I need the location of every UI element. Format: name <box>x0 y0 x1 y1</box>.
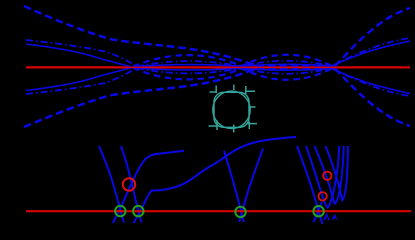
band dashed lens lower <box>133 68 332 80</box>
marker green circle 1 <box>115 206 125 216</box>
fermi surface inset circle <box>213 91 250 128</box>
band dashed outer upper-right <box>335 8 410 66</box>
fermi level line (top panel) <box>26 66 410 68</box>
marker green circle 4 <box>313 206 323 216</box>
band dashed outer lower-right <box>335 69 410 127</box>
band solid upper-right <box>332 41 410 66</box>
fermi surface inset tick marks <box>209 85 258 133</box>
right group parabola P4 <box>326 146 348 200</box>
band solid lower-left <box>26 67 134 91</box>
band solid lower-right <box>332 69 410 94</box>
band dash-dot lower mid lenses <box>137 68 330 74</box>
middle V right branch <box>239 149 263 223</box>
band solid lower mid <box>135 68 332 70</box>
dispersion swoosh C (bottom-left group) <box>113 151 184 223</box>
k-point label glyph 2 below right group <box>333 216 337 220</box>
band dash-dot upper mid lenses <box>137 61 330 67</box>
band dashed outer lower-left <box>24 69 335 127</box>
dispersion line B (bottom-left group) <box>121 146 142 223</box>
middle V left branch <box>224 151 244 222</box>
dispersion swoosh D (bottom-left group) <box>134 137 297 223</box>
band dashed outer upper-left <box>24 6 335 66</box>
right group parabola P2 <box>306 146 339 208</box>
band solid upper mid <box>135 64 332 66</box>
band dashed lens upper <box>133 55 332 67</box>
band dash-dot upper-right <box>333 38 410 66</box>
marker green circle 2 <box>133 206 143 216</box>
band solid upper-left <box>26 44 134 68</box>
fermi level line overlay (top panel) <box>26 66 410 68</box>
band dash-dot upper-left <box>26 40 138 67</box>
band dash-dot lower-left <box>26 68 138 95</box>
dispersion line A (bottom-left group) <box>99 146 124 223</box>
fermi surface inset rounded square <box>214 92 249 127</box>
right group parabola P3 <box>315 146 344 204</box>
marker red circle left <box>123 178 135 190</box>
right group short branch through green circle 4 <box>314 202 323 222</box>
k-point label glyph 1 below right group <box>324 215 329 221</box>
fermi level line (bottom panel) <box>26 210 411 212</box>
marker red circle right upper <box>323 172 331 180</box>
marker red circle right lower <box>318 192 326 200</box>
marker green circle 3 <box>235 207 245 217</box>
band dash-dot lower-right <box>333 69 410 96</box>
right group steep line L <box>297 146 323 224</box>
